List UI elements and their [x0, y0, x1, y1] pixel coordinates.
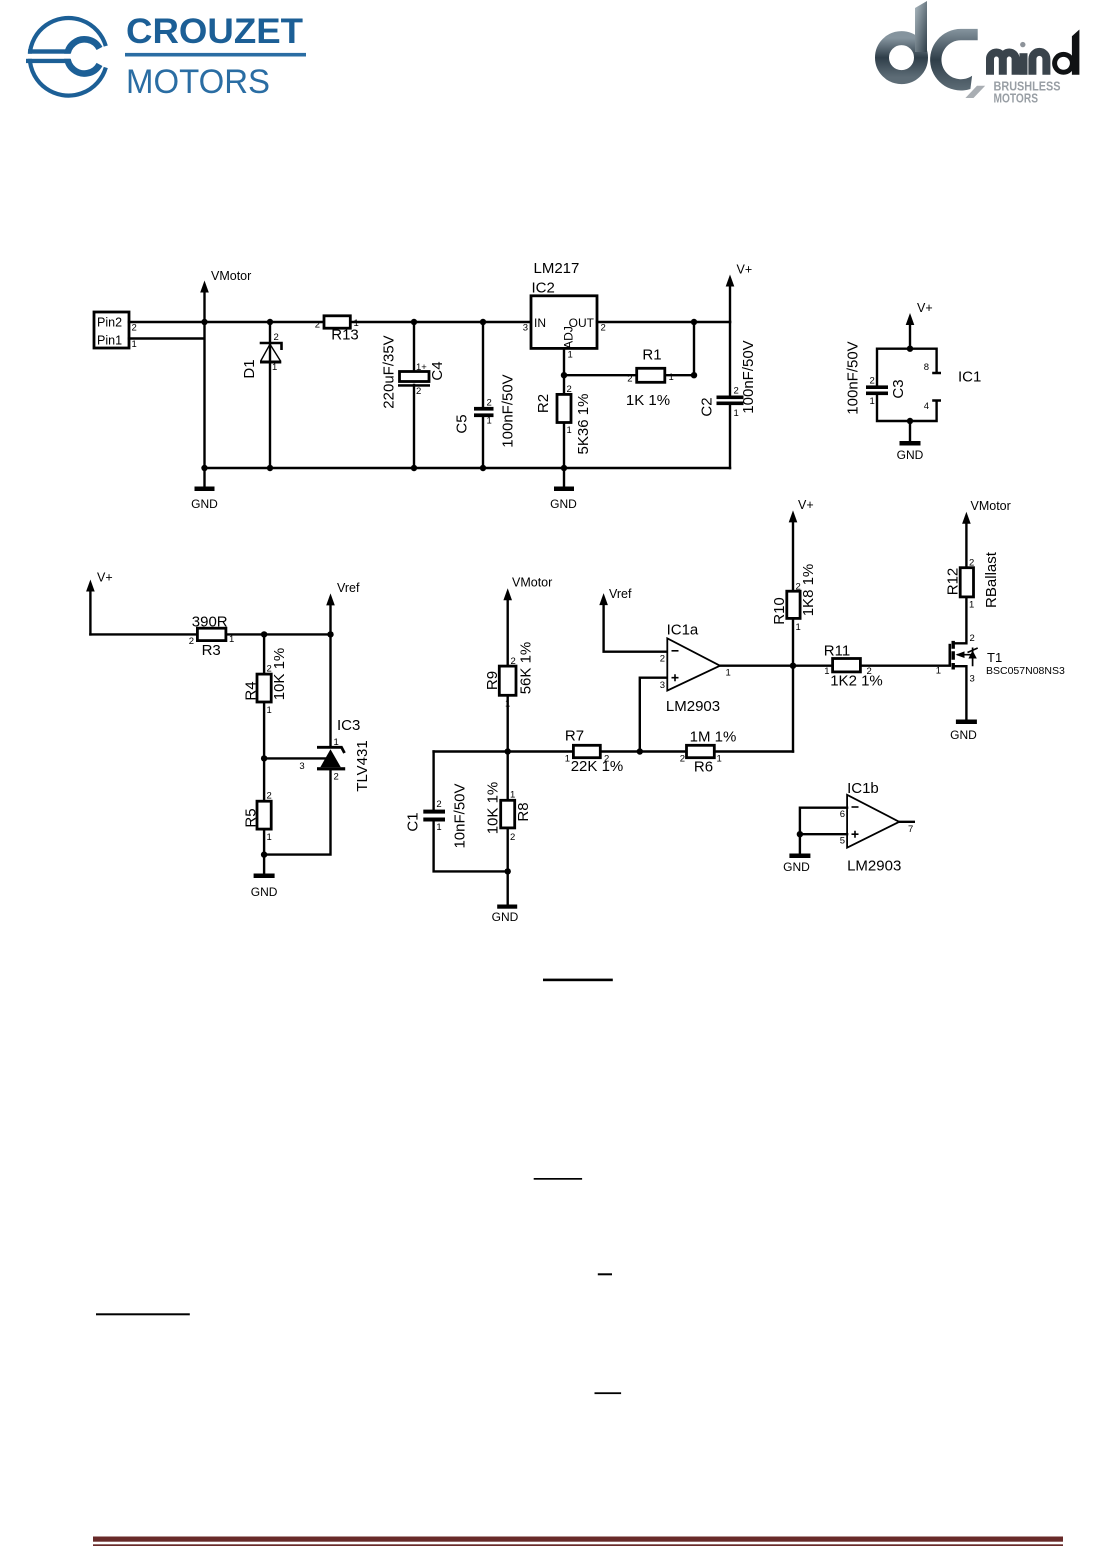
junction node (799.9,834.2): [797, 831, 803, 837]
supply arrow VMotor (R12): [962, 499, 1011, 568]
svg-text:IC3: IC3: [337, 717, 360, 734]
svg-text:5: 5: [840, 836, 845, 847]
svg-text:1: 1: [870, 396, 875, 407]
CROUZET logo block: [0, 0, 340, 120]
rule line 5: [595, 1392, 622, 1394]
DCmind logo: [860, 0, 1096, 115]
logo dc: d bowl: [882, 38, 921, 77]
junction node (910,421): [907, 418, 913, 424]
svg-text:R1: R1: [642, 347, 661, 364]
svg-text:TLV431: TLV431: [354, 740, 371, 791]
svg-text:2: 2: [867, 666, 872, 677]
svg-text:R8: R8: [515, 802, 532, 821]
supply arrow Vref (op-amp): [599, 587, 667, 652]
capacitor C1: [405, 752, 508, 872]
svg-text:22K 1%: 22K 1%: [571, 758, 624, 775]
wire V+ to R3: [90, 633, 197, 635]
svg-text:2: 2: [796, 582, 801, 593]
junction node (694,375.2): [691, 372, 697, 378]
svg-text:ADJ: ADJ: [561, 326, 575, 349]
wire R9 to divider node: [507, 695, 509, 751]
svg-text:1: 1: [487, 416, 492, 427]
junction node (793,665.7): [790, 663, 796, 669]
junction node (694,322): [691, 319, 697, 325]
svg-text:R3: R3: [202, 642, 221, 659]
svg-text:GND: GND: [897, 448, 924, 462]
svg-text:1: 1: [796, 622, 801, 633]
junction node (483,322): [480, 319, 486, 325]
svg-text:VMotor: VMotor: [971, 499, 1011, 513]
resistor R3: [189, 613, 235, 659]
junction node (507.7,871.4): [505, 868, 511, 874]
svg-text:VMotor: VMotor: [512, 576, 552, 590]
junction node (483,468): [480, 465, 486, 471]
capacitor C3: [845, 341, 908, 414]
svg-text:3: 3: [660, 680, 665, 691]
svg-text:R10: R10: [771, 597, 788, 625]
ground symbol T1 source: [950, 720, 977, 743]
svg-text:1: 1: [267, 705, 272, 716]
svg-text:100nF/50V: 100nF/50V: [500, 374, 517, 447]
wire plus input: [640, 678, 668, 752]
op-amp regulator IC2 LM217: [523, 260, 606, 361]
svg-text:3: 3: [970, 674, 975, 685]
svg-text:V+: V+: [917, 301, 933, 315]
junction node (564,468): [561, 465, 567, 471]
svg-text:2: 2: [334, 772, 339, 783]
svg-text:1: 1: [734, 408, 739, 419]
ground symbol IC1: [897, 421, 924, 462]
svg-text:Pin2: Pin2: [97, 316, 122, 330]
svg-text:V+: V+: [737, 263, 753, 277]
svg-text:2: 2: [416, 386, 421, 397]
svg-text:1: 1: [669, 372, 674, 383]
svg-text:1: 1: [936, 666, 941, 677]
junction node (204.5,468): [201, 465, 207, 471]
rule line 2: [534, 1178, 582, 1180]
svg-text:2: 2: [680, 754, 685, 765]
svg-text:2: 2: [274, 332, 279, 343]
resistor R2: [535, 375, 592, 468]
svg-text:R4: R4: [243, 681, 260, 700]
svg-text:GND: GND: [783, 860, 810, 874]
supply arrow V+ (lower left): [86, 571, 113, 635]
svg-text:VMotor: VMotor: [211, 269, 251, 283]
svg-text:R11: R11: [824, 643, 850, 660]
svg-text:5K36 1%: 5K36 1%: [575, 394, 592, 455]
svg-text:IN: IN: [534, 316, 546, 330]
svg-text:1: 1: [568, 350, 573, 361]
svg-text:3: 3: [299, 761, 304, 772]
node junction VMotor rail: [201, 319, 207, 325]
capacitor C5: [454, 322, 517, 468]
rule line 1: [543, 979, 613, 982]
svg-text:GND: GND: [492, 910, 519, 924]
svg-text:2: 2: [511, 656, 516, 667]
junction node (507.7,751.5): [505, 748, 511, 754]
wire op-amp output: [720, 665, 833, 667]
resistor R7: [565, 728, 624, 776]
logo mind: d bowl: [1055, 54, 1073, 72]
svg-text:1: 1: [969, 600, 974, 611]
junction node (330.5,634.4): [327, 631, 333, 637]
svg-text:2: 2: [132, 323, 137, 334]
svg-text:T1: T1: [987, 650, 1002, 665]
svg-text:1: 1: [510, 790, 515, 801]
svg-text:2: 2: [627, 374, 632, 385]
svg-text:GND: GND: [550, 497, 577, 511]
svg-text:2: 2: [189, 636, 194, 647]
svg-text:R5: R5: [243, 808, 260, 827]
svg-text:4: 4: [924, 401, 929, 412]
wire divider rail: [434, 750, 793, 752]
svg-text:R13: R13: [331, 327, 359, 344]
svg-text:LM217: LM217: [534, 260, 580, 277]
supply arrow VMotor (middle): [503, 576, 552, 667]
svg-text:2: 2: [436, 799, 441, 810]
junction node (414,322): [411, 319, 417, 325]
svg-text:LM2903: LM2903: [666, 698, 720, 715]
svg-text:1K8 1%: 1K8 1%: [800, 564, 817, 617]
svg-text:7: 7: [908, 824, 913, 835]
svg-text:1M 1%: 1M 1%: [690, 729, 737, 746]
IC1 power pins block: [877, 349, 981, 421]
svg-text:1: 1: [272, 362, 277, 373]
footer bar thick: [93, 1537, 1063, 1542]
wire ground rail top section: [205, 467, 731, 469]
resistor R12: [945, 551, 1001, 610]
svg-text:10K 1%: 10K 1%: [485, 782, 502, 835]
junction node (414,468): [411, 465, 417, 471]
svg-text:10nF/50V: 10nF/50V: [452, 783, 469, 848]
junction node (264.1,634.4): [261, 631, 267, 637]
svg-text:2: 2: [510, 832, 515, 843]
ground symbol lower left: [251, 855, 278, 899]
svg-text:1: 1: [824, 666, 829, 677]
wire R11 to T1 gate: [860, 665, 949, 667]
svg-text:GND: GND: [191, 497, 218, 511]
capacitor C2: [699, 322, 758, 468]
op-amp IC1a: [660, 622, 731, 716]
junction node (270,468): [267, 465, 273, 471]
supply arrow V+ (IC1): [906, 301, 933, 349]
svg-text:V+: V+: [798, 498, 814, 512]
svg-text:IC1a: IC1a: [667, 622, 699, 639]
svg-text:IC1: IC1: [958, 369, 981, 386]
svg-text:10K 1%: 10K 1%: [271, 648, 288, 701]
resistor R6: [680, 729, 737, 776]
junction node (264.1,758.4): [261, 755, 267, 761]
rule line 4: [96, 1313, 190, 1315]
svg-text:R2: R2: [535, 394, 552, 413]
wire to IC3 ref: [264, 757, 326, 759]
svg-text:1: 1: [267, 832, 272, 843]
svg-text:2: 2: [870, 376, 875, 387]
svg-text:LM2903: LM2903: [847, 858, 901, 875]
resistor R10: [771, 564, 817, 666]
svg-text:2: 2: [660, 654, 665, 665]
wire IC2 ADJ down: [563, 348, 565, 375]
ground symbol IC1b: [783, 834, 810, 874]
rule line 3: [598, 1273, 612, 1275]
svg-text:R6: R6: [694, 759, 713, 776]
supply arrow Vref (lower left): [326, 581, 360, 634]
svg-text:1K2 1%: 1K2 1%: [830, 673, 883, 690]
wire IC2 OUT to V+: [597, 321, 730, 323]
capacitor C4 (electrolytic): [381, 322, 447, 468]
svg-text:1: 1: [229, 634, 234, 645]
logo mind: i dot: [1020, 42, 1025, 47]
svg-text:2: 2: [267, 664, 272, 675]
svg-text:BSC057N08NS3: BSC057N08NS3: [986, 665, 1065, 677]
svg-text:1: 1: [334, 737, 339, 748]
svg-text:8: 8: [924, 362, 929, 373]
svg-text:1: 1: [726, 668, 731, 679]
ground symbol below R8: [492, 871, 519, 924]
shunt regulator IC3 TLV431: [264, 634, 371, 854]
supply arrow V+ (R10): [789, 498, 814, 591]
svg-text:3: 3: [523, 323, 528, 334]
resistor R5: [243, 758, 272, 854]
op-amp IC1b: [800, 780, 914, 875]
svg-text:R9: R9: [484, 671, 501, 690]
supply arrow V+ (top right): [726, 263, 752, 323]
junction node (270,322): [267, 319, 273, 325]
svg-text:100nF/50V: 100nF/50V: [740, 340, 757, 413]
diode D1 (zener): [241, 322, 282, 468]
wire R13 to IC2 IN: [350, 321, 531, 323]
svg-text:1+: 1+: [416, 362, 427, 373]
svg-text:2: 2: [267, 791, 272, 802]
svg-text:2: 2: [734, 386, 739, 397]
svg-text:C3: C3: [890, 379, 907, 398]
svg-text:Vref: Vref: [337, 581, 360, 595]
svg-text:2: 2: [601, 323, 606, 334]
svg-text:2: 2: [970, 633, 975, 644]
svg-text:1K 1%: 1K 1%: [626, 392, 670, 409]
svg-text:R7: R7: [565, 728, 584, 745]
svg-text:RBallast: RBallast: [983, 551, 1000, 608]
wire R3 to Vref: [226, 633, 331, 635]
svg-text:1: 1: [565, 754, 570, 765]
svg-text:Vref: Vref: [609, 587, 632, 601]
junction node (639.8,751.5): [637, 748, 643, 754]
ground symbol left: [191, 468, 218, 511]
svg-text:C2: C2: [699, 397, 716, 416]
svg-text:GND: GND: [251, 885, 278, 899]
svg-text:6: 6: [840, 809, 845, 820]
svg-text:2: 2: [315, 320, 320, 331]
svg-text:Pin1: Pin1: [97, 334, 122, 348]
resistor R1: [564, 322, 694, 409]
svg-text:390R: 390R: [192, 613, 228, 630]
junction node (910,348.7): [907, 346, 913, 352]
wire Pin1 to ground rail: [129, 322, 205, 468]
svg-text:1: 1: [436, 822, 441, 833]
svg-text:2: 2: [487, 398, 492, 409]
resistor R8: [485, 752, 533, 872]
resistor R11: [824, 643, 883, 690]
svg-text:C5: C5: [454, 414, 471, 433]
svg-text:D1: D1: [241, 359, 258, 378]
svg-text:V+: V+: [97, 571, 113, 585]
resistor R9: [484, 642, 535, 710]
svg-text:2: 2: [969, 558, 974, 569]
svg-text:1: 1: [567, 425, 572, 436]
svg-text:56K 1%: 56K 1%: [518, 642, 535, 695]
junction node (264.1,854.6): [261, 851, 267, 857]
connector X1 Pin1/Pin2: [94, 312, 137, 350]
supply arrow VMotor: [200, 269, 251, 322]
svg-text:IC2: IC2: [532, 279, 555, 296]
svg-text:C1: C1: [405, 812, 422, 831]
ground symbol below R2: [550, 468, 577, 511]
svg-text:C4: C4: [429, 361, 446, 380]
wire Pin2 to R13: [129, 321, 324, 323]
transistor T1 MOSFET: [936, 597, 1065, 720]
svg-text:2: 2: [604, 754, 609, 765]
wire feedback: [792, 666, 794, 752]
svg-text:IC1b: IC1b: [847, 780, 879, 797]
svg-text:1: 1: [717, 754, 722, 765]
svg-text:GND: GND: [950, 728, 977, 742]
footer bar thin: [93, 1544, 1063, 1546]
resistor R13: [315, 316, 359, 344]
junction node (564,375.2): [561, 372, 567, 378]
svg-text:R12: R12: [945, 568, 962, 596]
svg-text:1: 1: [132, 339, 137, 350]
svg-text:100nF/50V: 100nF/50V: [845, 341, 862, 414]
svg-text:1: 1: [354, 318, 359, 329]
svg-text:220uF/35V: 220uF/35V: [381, 335, 398, 408]
resistor R4: [243, 634, 289, 758]
svg-text:2: 2: [567, 384, 572, 395]
